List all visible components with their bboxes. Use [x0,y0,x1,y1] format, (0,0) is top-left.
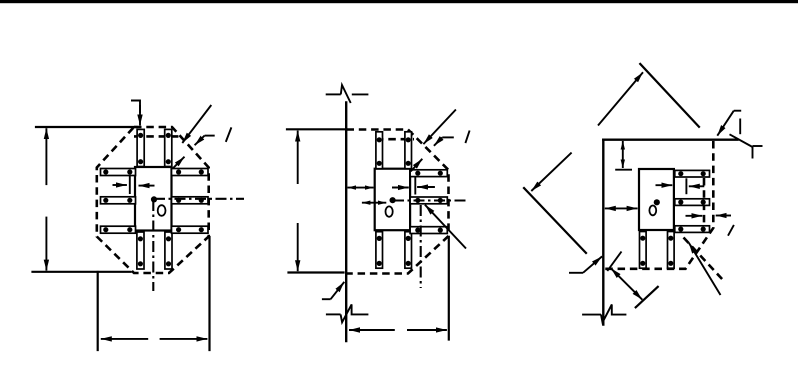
page top border rule [0,0,798,3]
fig3 top edge dim arrow (double vertical) [622,141,624,168]
fig1 width dim extension left [97,272,99,350]
fig3 right anchor slot row1 [675,170,710,177]
fig1 right anchor slot row3 [172,226,209,233]
fig2 bent leader arrow at corner [434,137,454,145]
fig3 diagonal dim extension upper [640,64,699,127]
fig3 inner hidden line (bolt column) [703,178,706,223]
fig3 right anchor slot row3 [675,226,710,233]
fig2 height dim extension top [287,128,346,130]
fig1 width dim line left [101,338,148,340]
fig2 wall bottom break symbol [326,304,369,322]
fig2 center offset double arrow [362,202,386,204]
fig1 top bolt-row hidden line [134,135,179,138]
fig3 center label 0 [649,206,656,216]
fig3 top edge dim tick [615,169,632,171]
fig1 plate edge tick line [129,176,131,195]
fig1 height dim line upper [45,128,47,185]
fig3 bottom anchor slot left [640,232,647,269]
fig2 bottom-left bent leader arrow [322,282,344,299]
fig1 corner offset arrow (NE) [173,157,185,169]
fig2 wall-to-plate dim arrow (double) [348,187,374,189]
fig1 foundation octagon outline (dashed) [97,127,209,273]
fig3 bolt spacing arrow [689,185,705,187]
fig2 height dim line upper [297,131,299,184]
fig1 anchor bolts (dots) [103,133,204,267]
fig3 right anchor slot row2 [675,199,710,206]
fig1 left anchor slot row1 [101,169,136,176]
fig3 corner clearance slash tick [607,252,621,272]
fig3 bottom anchor slot right [668,232,675,269]
fig2 top anchor slot right [405,132,412,169]
fig3 bottom-left bent leader arrow [569,256,602,272]
fig1 right anchor slot row2 [172,197,209,204]
fig1 slash label [226,127,232,141]
fig2 bottom anchor slot left [376,232,383,269]
fig3 wall bottom break symbol [582,305,626,323]
fig1 top bent leader arrow [131,101,140,126]
fig3 edge offset arrow from right [716,215,731,217]
fig2 top anchor slot left [376,132,383,169]
fig2 width dim extension right [448,237,450,340]
fig3 lower spacing arrow right [686,215,703,217]
fig2 top bolt-row hidden line [376,138,414,141]
fig2 width dim line left [349,329,395,331]
fig2 anchor bolts (dots) [377,137,443,266]
fig3 corner clearance extension diag [636,287,658,308]
fig2 leader arrow from SE [425,205,466,249]
fig2 slash label [465,131,469,144]
fig1 width dim extension right [208,237,210,350]
fig1 long leader arrow to corner [182,105,211,143]
fig2 right anchor slot row2 [410,197,447,204]
fig1 left anchor slot row3 [101,226,136,233]
fig1 right anchor slot row1 [172,169,209,176]
fig1 center point O [151,196,157,202]
fig2 height dim extension bottom [289,271,344,273]
fig2 plate edge arrow inside rect [392,187,409,189]
fig3 diagonal dim line lower [531,153,571,191]
fig2 height dim line lower [297,223,299,271]
fig1 plate thickness arrow left [113,184,127,186]
fig3 leader arrow from SE [689,243,721,295]
fig3 corner clearance double arrow [611,268,642,299]
fig1 top anchor slot right [165,129,172,166]
fig1 center label 0 [158,205,166,216]
fig2 right anchor slot row1 [410,170,447,177]
fig2 center point O [390,197,396,203]
fig3 center point O [654,199,660,205]
fig2 right anchor slot row3 [410,227,447,234]
fig2 foundation outline (dashed, cut by wall) [347,130,449,274]
fig1 height dim extension top [36,126,137,128]
fig2 pole base plate rectangle [375,169,410,231]
fig3 slash label [728,225,734,236]
fig3 pole base plate rectangle [639,169,674,230]
fig1 top anchor slot left [137,129,144,166]
fig1 horizontal centerline [154,198,244,200]
fig2 vertical centerline [420,205,422,288]
fig3 diagonal dim line upper [598,72,643,125]
fig1 width dim line right [160,338,208,340]
fig3 wall-to-plate dim arrow (double) [605,207,638,209]
fig1 pole base plate rectangle [135,167,172,231]
fig1 bottom anchor slot left [137,232,144,269]
fig1 left anchor slot row2 [101,197,136,204]
fig1 vertical centerline [152,200,154,291]
fig3 diagonal dim extension lower [524,188,586,253]
fig3 top bent leader arrow [717,111,741,136]
fig2 bottom anchor slot right [405,232,412,269]
fig2 horizontal centerline [393,199,468,201]
fig2 corner offset arrow (NE) [411,159,423,172]
fig2 plate edge tick line [414,177,416,195]
fig1 bottom anchor slot right [165,232,172,269]
fig2 existing wall line [345,103,347,342]
fig3 bolt spacing tick [685,178,687,194]
fig3 anchor bolts (dots) [640,171,706,266]
fig2 long leader arrow to corner [423,110,456,145]
fig2 plate edge arrow right [417,186,435,188]
fig2 center label 0 [386,206,393,216]
fig3 plate edge arrow inside rect [656,184,673,186]
fig3 foundation outline (dashed, cut at corner) [605,141,714,269]
fig1 bent leader arrow at corner [195,136,215,146]
fig1 height dim line lower [45,217,47,271]
fig3 diagonal centerline to corner [684,238,723,280]
fig2 wall top break symbol [326,85,369,103]
fig1 height dim extension bottom [33,271,131,273]
fig2 width dim line right [407,329,447,331]
fig1 plate thickness arrow right [139,185,155,187]
fig3 existing wall corner lines [603,140,737,325]
fig3 wall right break symbol [730,119,763,159]
